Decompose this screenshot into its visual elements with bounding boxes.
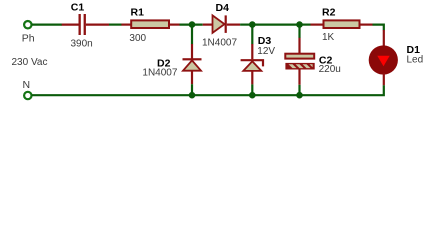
svg-text:D4: D4 (216, 2, 230, 14)
svg-text:C1: C1 (71, 2, 85, 14)
junction node D (189, 92, 196, 99)
svg-text:R2: R2 (322, 7, 336, 19)
capacitor C1 (62, 14, 109, 35)
wire N to node D (32, 94, 192, 96)
wire D1 to bottom rail corner (300, 85, 384, 95)
svg-text:N: N (23, 79, 31, 91)
wire node B to node C (252, 24, 299, 26)
svg-text:300: 300 (129, 33, 146, 44)
junction node C (296, 21, 303, 28)
svg-text:1N4007: 1N4007 (142, 67, 177, 78)
junction node F (296, 92, 303, 99)
svg-text:390n: 390n (71, 39, 93, 50)
junction node A (189, 21, 196, 28)
wire Ph to C1 (32, 24, 62, 26)
resistor R2 (311, 20, 373, 28)
terminal Ph (24, 21, 31, 28)
svg-text:230 Vac: 230 Vac (12, 57, 48, 68)
wire D3 to node E (251, 84, 253, 95)
junction node E (249, 92, 256, 99)
svg-text:12V: 12V (257, 46, 275, 57)
svg-text:220u: 220u (319, 64, 341, 75)
svg-text:Ph: Ph (22, 33, 35, 45)
wire node E to node F (252, 94, 299, 96)
terminal N (24, 92, 31, 99)
wire node D to node E (192, 94, 252, 96)
wire node A to D2 (191, 25, 193, 45)
svg-text:1K: 1K (322, 32, 335, 43)
junction node B (249, 21, 256, 28)
wire node B to D3 (251, 25, 253, 45)
svg-text:Led: Led (407, 54, 424, 65)
wire node C to R2 (300, 24, 311, 26)
led D1 (369, 30, 398, 85)
wire R1 to node A (180, 24, 203, 26)
wire C1 to R1 (109, 24, 122, 26)
wire D2 to node D (191, 84, 193, 95)
zener D3 (241, 44, 263, 84)
wire node A to node B (240, 24, 252, 26)
resistor R1 (121, 20, 179, 28)
diode D2 (183, 44, 202, 84)
diode D4 (203, 15, 240, 33)
svg-text:R1: R1 (131, 7, 145, 19)
capacitor C2 (285, 38, 314, 85)
wire node C to C2 (298, 25, 300, 38)
wire R2 to D1 corner (373, 25, 384, 31)
svg-text:D3: D3 (258, 35, 272, 47)
wire C2 to node F (298, 85, 300, 95)
svg-text:1N4007: 1N4007 (202, 38, 237, 49)
